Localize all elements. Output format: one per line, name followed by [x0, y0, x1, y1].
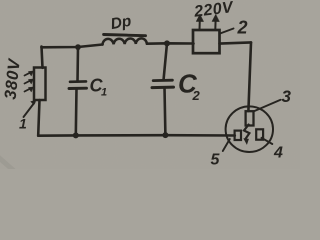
- label 380V (rotated): [2, 56, 24, 100]
- svg-text:1: 1: [101, 87, 107, 99]
- label 4 with pointer line: [262, 138, 284, 162]
- resistor arrows (three): [25, 71, 34, 92]
- wire top right of choke: [147, 42, 194, 45]
- label 2 with pointer line: [220, 18, 248, 38]
- tube left electrode: [235, 131, 241, 140]
- inductor Dr core bar: [104, 35, 146, 36]
- tube envelope circle: [226, 106, 273, 152]
- discharge bolt: [243, 125, 249, 145]
- svg-text:1: 1: [19, 116, 27, 132]
- inductor Dr coil: [103, 38, 147, 44]
- svg-text:5: 5: [211, 152, 221, 169]
- label 220V: [192, 0, 235, 21]
- wire C1 bottom branch: [75, 89, 78, 136]
- wire box to corner: [220, 42, 252, 43]
- tube top electrode: [246, 111, 254, 125]
- svg-text:2: 2: [192, 88, 201, 103]
- wire top horizontal: [42, 45, 103, 48]
- svg-text:3: 3: [282, 87, 292, 106]
- label C1: [90, 76, 108, 99]
- wire resistor bottom lead: [38, 100, 39, 136]
- label Dr (choke): [109, 13, 132, 33]
- svg-text:4: 4: [273, 145, 283, 162]
- wire left vertical: [42, 47, 43, 68]
- junction dot top C1: [75, 44, 81, 50]
- junction dot top C2: [164, 40, 170, 46]
- tube right electrode: [256, 129, 263, 139]
- svg-text:Dp: Dp: [109, 13, 132, 33]
- junction dot bottom C2: [162, 132, 168, 138]
- capacitor C2 plates: [152, 80, 174, 87]
- wire C1 top branch: [76, 47, 79, 81]
- junction dot bottom C1: [73, 132, 79, 138]
- label 1 with pointer arrow: [19, 100, 37, 132]
- wire right vertical down to tube: [248, 42, 251, 111]
- label C2: [178, 69, 201, 104]
- paper background: [0, 0, 300, 169]
- wire C2 bottom branch: [163, 88, 166, 135]
- svg-text:2: 2: [237, 18, 248, 38]
- corner smudge bottom-left: [0, 156, 13, 170]
- capacitor C1 plates: [69, 81, 87, 88]
- wire bottom horizontal: [38, 134, 235, 137]
- 220V terminal arrows: [196, 14, 219, 29]
- starter box (220V source): [193, 30, 220, 53]
- resistor R (ballast) body: [34, 68, 46, 101]
- label 3 with pointer line: [254, 87, 292, 111]
- wire C2 top branch: [164, 43, 168, 80]
- label 5 with pointer line: [211, 139, 230, 169]
